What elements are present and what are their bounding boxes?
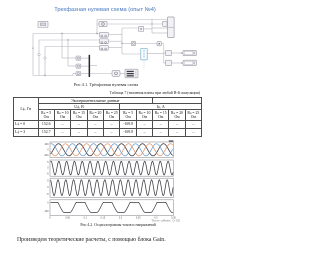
svg-text:200: 200 [45,143,50,146]
oscilloscope panel 2 frame [46,160,173,176]
annotation dashed line [143,60,145,69]
wire phase A vertical [32,34,34,76]
powergui block [38,21,48,27]
current measurement block [99,21,107,26]
bottom paragraph [17,237,207,243]
scope (tall) [168,17,175,38]
wire bottom return [33,74,76,77]
wire VB to bus [81,65,89,67]
neutral bus bar [89,55,91,77]
wire top feed [96,20,167,35]
wire source A drop [62,34,76,59]
legend mark [169,140,174,142]
page title [0,7,210,13]
RMS block 2 [166,60,172,65]
wire M3 output [108,47,122,49]
wire rms1 to display1 [172,52,184,54]
wire phase C vertical [44,47,46,76]
panel4 neutral curve [51,202,173,212]
svg-text:0.2: 0.2 [119,217,123,220]
wire to abs block [121,43,131,44]
wire VC to bus [81,73,89,75]
wire bus to load [122,48,141,54]
RMS block 1 [166,50,172,55]
wire M1 output [108,34,122,36]
abs block [131,41,135,45]
small gain block [139,26,144,31]
panel3 current curve [51,180,174,196]
AC source VA [76,56,81,60]
svg-text:0: 0 [49,217,51,220]
caption fig 4.1 [0,82,212,87]
wire VA to bus [81,57,89,59]
wire gain to scope input [144,20,168,34]
table label [0,91,200,95]
svg-text:0: 0 [47,149,49,152]
display 2 [183,60,197,65]
phase A voltage curve [51,144,173,156]
three-phase load block (selected) [141,48,147,60]
wire rail C horizontal [45,46,100,48]
panel2 current curve [51,161,174,175]
gain2 block [157,42,161,46]
display 1 [183,50,197,55]
scope2 (striped) [125,69,138,78]
pre-scope block [163,21,168,26]
svg-text:5: 5 [47,179,49,182]
svg-text:-100: -100 [44,210,49,213]
wire scope down [164,44,166,63]
meter block [112,70,120,76]
wire source B drop [68,40,76,66]
svg-text:0.25: 0.25 [136,217,141,220]
svg-text:-5: -5 [46,193,49,196]
wire bus to meter [90,66,112,74]
phase C voltage curve [51,144,173,156]
oscilloscope panel 3 frame [46,178,173,197]
svg-text:0.15: 0.15 [101,217,106,220]
V-I measurement M2 [100,39,109,44]
V-I measurement M3 [100,45,109,50]
wire meter to scope2 [120,72,125,74]
wire rail A horizontal [33,33,100,34]
phase B voltage curve [51,144,173,156]
wire rail B horizontal [39,39,100,40]
V-I measurement M1 [100,32,109,37]
wire rms2 to display2 [172,62,184,64]
data table [13,97,202,138]
wire abs to gain2 [136,43,157,45]
svg-text:0: 0 [47,186,49,189]
svg-text:0.05: 0.05 [65,217,70,220]
wire M2 output [108,40,122,42]
oscilloscope panel 4 frame [44,200,174,216]
wire phase B vertical [38,40,40,76]
caption fig 4.2 [18,223,218,227]
svg-text:0: 0 [47,167,49,170]
svg-text:0: 0 [47,201,49,204]
wire gain2 down [161,43,163,45]
svg-text:-5: -5 [46,172,49,175]
oscilloscope panel 1 frame [44,142,174,158]
svg-text:5: 5 [47,161,49,164]
wire mux vertical [122,28,139,48]
x axis tick labels [49,217,176,220]
AC source VB [76,64,81,68]
AC source VC [76,72,81,76]
svg-text:-200: -200 [44,154,49,157]
svg-text:0.1: 0.1 [84,217,88,220]
wire current meas to scope [107,23,163,24]
wire load to rms [147,52,164,54]
